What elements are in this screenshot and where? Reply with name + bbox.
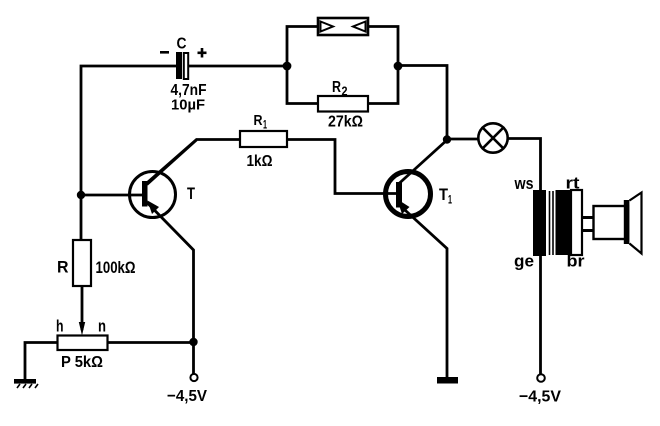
svg-text:h: h <box>56 317 64 336</box>
svg-text:ge: ge <box>514 252 534 271</box>
svg-text:R: R <box>332 79 341 96</box>
svg-text:1: 1 <box>448 193 452 207</box>
svg-text:C: C <box>177 36 187 53</box>
svg-text:R: R <box>57 258 69 277</box>
svg-text:R: R <box>254 112 263 129</box>
svg-text:−4,5V: −4,5V <box>167 388 207 405</box>
svg-text:n: n <box>98 317 106 336</box>
svg-text:27kΩ: 27kΩ <box>328 114 363 131</box>
svg-text:2: 2 <box>342 85 348 99</box>
svg-text:rt: rt <box>566 174 580 193</box>
svg-text:br: br <box>567 252 585 271</box>
svg-text:10µF: 10µF <box>171 97 205 114</box>
svg-text:100kΩ: 100kΩ <box>96 258 136 277</box>
svg-text:ws: ws <box>514 174 534 193</box>
svg-text:T: T <box>187 184 195 203</box>
svg-text:P 5kΩ: P 5kΩ <box>61 354 103 371</box>
svg-text:−4,5V: −4,5V <box>519 389 561 406</box>
svg-text:1kΩ: 1kΩ <box>247 153 273 170</box>
svg-text:1: 1 <box>263 118 267 132</box>
